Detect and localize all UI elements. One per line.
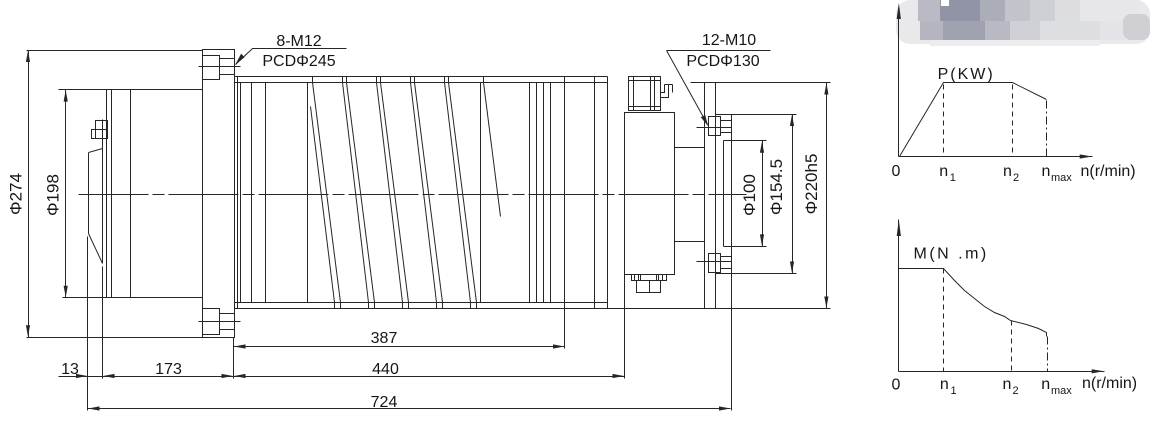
dimension 724 <box>88 406 731 410</box>
svg-text:Φ274: Φ274 <box>7 173 26 215</box>
power chart axes <box>897 3 1093 159</box>
dimension phi154.5 <box>790 115 794 274</box>
svg-text:724: 724 <box>371 394 398 411</box>
torque chart axes <box>897 220 1105 374</box>
svg-text:Φ154.5: Φ154.5 <box>767 159 786 215</box>
top fitting <box>629 77 673 111</box>
extension line bottom <box>27 337 235 339</box>
svg-text:0: 0 <box>892 377 901 394</box>
front housing block <box>625 113 675 275</box>
watermark mosaic <box>896 0 1150 46</box>
bolt hole 12-M10 top <box>697 117 732 136</box>
svg-text:n: n <box>1003 163 1012 180</box>
leader 12-M10 <box>667 51 771 127</box>
svg-text:max: max <box>1051 385 1072 397</box>
svg-text:n: n <box>1041 376 1050 393</box>
dimension phi100 <box>760 141 764 247</box>
svg-text:M(N .m): M(N .m) <box>914 246 989 263</box>
extension verticals for length dims <box>88 77 732 411</box>
extension line top <box>27 50 203 52</box>
torque chart dashed n2 <box>1011 321 1013 372</box>
extension lines front phi220h5 <box>691 82 831 84</box>
svg-text:n(r/min): n(r/min) <box>1082 375 1137 392</box>
svg-text:173: 173 <box>155 361 182 378</box>
extension lines front phi154.5 <box>716 115 797 274</box>
rear cover plate <box>89 120 103 264</box>
svg-text:n: n <box>1042 163 1051 180</box>
svg-text:P(KW): P(KW) <box>938 66 995 83</box>
spindle nose phi154.5 <box>716 115 732 274</box>
neck spacer <box>675 148 705 242</box>
rear flange <box>203 50 235 338</box>
power chart dashed n1 <box>943 85 945 157</box>
bolt hole 12-M10 bottom <box>697 254 732 273</box>
svg-text:8-M12: 8-M12 <box>276 33 321 50</box>
svg-text:Φ198: Φ198 <box>44 174 63 216</box>
svg-text:Φ100: Φ100 <box>740 174 759 216</box>
svg-text:n: n <box>1003 376 1012 393</box>
svg-text:PCDΦ245: PCDΦ245 <box>262 53 335 70</box>
extension line phi198 bottom <box>63 297 203 299</box>
svg-text:1: 1 <box>950 172 956 184</box>
svg-text:387: 387 <box>371 330 398 347</box>
dimension phi274 <box>26 51 30 338</box>
barrel stator housing <box>235 77 831 309</box>
extension line phi198 top <box>59 89 203 91</box>
svg-text:n(r/min): n(r/min) <box>1081 163 1136 180</box>
svg-text:2: 2 <box>1013 385 1019 397</box>
torque curve <box>899 269 1047 337</box>
torque chart dashed n1 <box>943 269 945 372</box>
torque chart dashed nmax <box>1047 337 1049 372</box>
svg-text:12-M10: 12-M10 <box>702 32 756 49</box>
power chart dashed nmax <box>1046 101 1048 157</box>
leader 8-M12 <box>235 49 347 66</box>
svg-text:1: 1 <box>951 385 957 397</box>
bolt 8-M12 top <box>199 56 241 80</box>
extension lines front phi100 <box>724 141 767 247</box>
svg-text:n: n <box>940 376 949 393</box>
svg-text:Φ220h5: Φ220h5 <box>802 154 821 215</box>
svg-text:440: 440 <box>372 361 399 378</box>
rear housing phi274 <box>202 50 204 338</box>
dimension phi220h5 <box>824 83 828 309</box>
bottom fitting <box>632 275 667 293</box>
rear connector clamp <box>92 121 108 139</box>
svg-text:n: n <box>939 163 948 180</box>
svg-text:max: max <box>1051 172 1072 184</box>
svg-text:13: 13 <box>61 361 79 378</box>
svg-text:0: 0 <box>892 163 901 180</box>
dimension 13 and 173 and 440 line <box>59 374 625 378</box>
rear cap phi198 <box>107 90 131 298</box>
power chart dashed n2 <box>1012 85 1014 157</box>
dimension phi198 <box>64 90 68 298</box>
front flange phi220 <box>705 83 716 309</box>
centerline main axis <box>79 194 747 196</box>
spiral cooling grooves <box>311 77 501 309</box>
power curve <box>900 83 1047 157</box>
svg-text:PCDΦ130: PCDΦ130 <box>686 53 759 70</box>
dimension 387 <box>234 344 565 348</box>
bolt 8-M12 bottom <box>199 309 241 335</box>
svg-text:2: 2 <box>1013 172 1019 184</box>
